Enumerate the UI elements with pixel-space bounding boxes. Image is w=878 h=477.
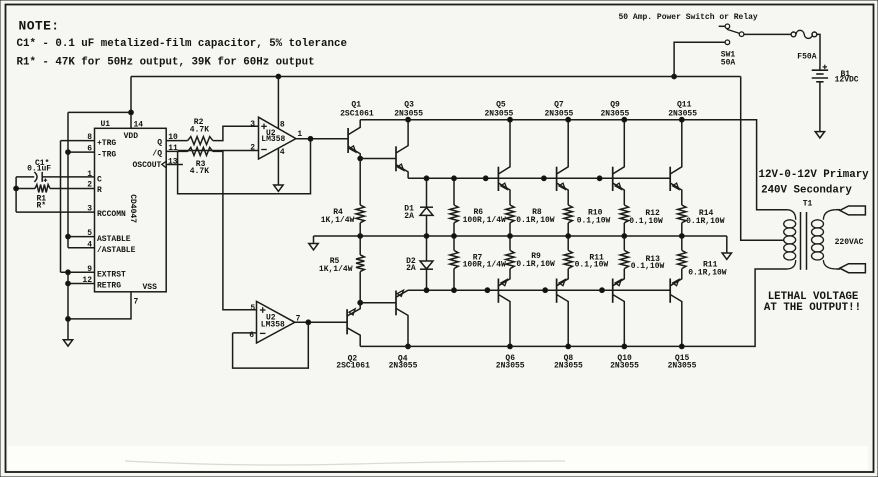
svg-text:4: 4: [87, 240, 92, 249]
node Q4 collector junction: [406, 344, 411, 349]
svg-text:4.7K: 4.7K: [190, 125, 209, 134]
label R: [97, 186, 102, 195]
label CD4047 vertical: [128, 194, 137, 223]
wire pin12 RETRG: [68, 283, 95, 285]
svg-text:8: 8: [280, 120, 285, 129]
label R7: [473, 254, 483, 263]
resistor R6: [450, 178, 458, 236]
wire R2 to pin3: [213, 126, 259, 140]
label pin12: [82, 276, 92, 285]
node pin12 junction: [66, 281, 71, 286]
svg-text:12V-0-12V Primary: 12V-0-12V Primary: [759, 169, 870, 181]
node Q1 emitter junction: [358, 156, 363, 161]
label VSS: [143, 283, 158, 292]
svg-text:11: 11: [168, 144, 178, 153]
svg-text:100R,1/4W: 100R,1/4W: [463, 216, 506, 225]
label Q11 type: [668, 109, 697, 118]
label pin13: [168, 157, 178, 166]
node Q7 collector junction: [566, 117, 571, 122]
wire VDD branch horiz: [68, 111, 131, 113]
diode D1: [420, 178, 433, 236]
resistor R14: [678, 205, 686, 236]
node D1 gnd junction: [424, 234, 429, 239]
label power switch note: [619, 13, 758, 22]
ground battery: [815, 132, 824, 138]
svg-text:0.1,10W: 0.1,10W: [629, 217, 663, 226]
node R7 rail junction: [452, 288, 457, 293]
label D1 value: [404, 212, 414, 221]
label R8 value: [516, 216, 555, 225]
op-amp U2a minus: [261, 149, 267, 151]
svg-text:10: 10: [168, 133, 178, 142]
wire Q1 emitter down to R4: [359, 159, 361, 206]
bottom smudge line: [125, 461, 565, 465]
label R5 value: [319, 265, 353, 274]
battery B1: [812, 65, 828, 82]
op-amp U2b triangle: [257, 301, 295, 343]
svg-text:2N3055: 2N3055: [610, 362, 639, 371]
node R6 base junction: [452, 176, 457, 181]
label SW1: [721, 51, 736, 60]
svg-text:Q11: Q11: [677, 100, 692, 109]
transistor Q9: [613, 120, 625, 205]
svg-text:4: 4: [280, 148, 285, 157]
label Q5 type: [485, 109, 514, 118]
label U2a pin2: [250, 143, 255, 152]
svg-text:6: 6: [87, 145, 92, 154]
transistor Q2: [347, 303, 360, 347]
transistor Q10: [613, 269, 625, 347]
svg-text:0.1R,10W: 0.1R,10W: [686, 217, 725, 226]
label R2 value: [190, 125, 209, 134]
wire top collector rail: [360, 120, 787, 210]
node U2a output junction: [308, 136, 313, 141]
label pin7: [134, 298, 139, 307]
node bottom base rail dot3: [600, 288, 605, 293]
svg-text:1K,1/4W: 1K,1/4W: [319, 265, 353, 274]
svg-text:2N3055: 2N3055: [389, 362, 418, 371]
label U2b pin7: [296, 314, 301, 323]
wire Q1emitter to Q3base: [360, 158, 396, 160]
node U2b output junction: [306, 320, 311, 325]
label pin11: [168, 144, 178, 153]
svg-text:3: 3: [250, 120, 255, 129]
wire secondary bottom lead: [836, 268, 840, 270]
wire SW1 to rail: [674, 42, 725, 76]
label pin4: [87, 240, 92, 249]
wire VDD pin14 drop: [130, 77, 132, 129]
wire pin11 /Q: [166, 150, 188, 152]
ground rail right symbol: [722, 236, 731, 259]
label R14: [699, 209, 714, 218]
resistor R12: [620, 205, 628, 236]
svg-text:RETRG: RETRG: [97, 282, 121, 291]
label R11 lower value: [688, 268, 727, 277]
label Q9: [610, 100, 620, 109]
svg-text:C1* - 0.1 uF metalized-film ca: C1* - 0.1 uF metalized-film capacitor, 5…: [17, 38, 347, 50]
label 220VAC: [835, 238, 864, 247]
label U1: [101, 120, 111, 129]
svg-text:F50A: F50A: [797, 53, 816, 62]
wire pin3 RCCOMN: [16, 211, 94, 213]
ground rail left symbol: [309, 236, 318, 250]
node Q10 collector junction: [622, 344, 627, 349]
svg-text:VDD: VDD: [124, 132, 139, 141]
svg-text:12VDC: 12VDC: [835, 75, 859, 84]
node bottom base rail dot2: [543, 288, 548, 293]
label B1: [841, 70, 851, 79]
node pin6 junction: [66, 150, 71, 155]
svg-text:T1: T1: [803, 199, 813, 208]
label /ASTABLE: [97, 246, 136, 255]
node R1 junction: [14, 186, 19, 191]
label Q4 type: [389, 362, 418, 371]
wire VDD branch rail: [67, 112, 69, 247]
node top base rail dot2: [542, 176, 547, 181]
label SW1 rating: [721, 59, 736, 68]
label U2a pin3: [250, 120, 255, 129]
svg-text:2: 2: [87, 181, 92, 190]
transistor Q5: [498, 120, 510, 205]
svg-text:U1: U1: [101, 120, 111, 129]
label /Q: [152, 150, 162, 159]
IC U1 CD4047 box: [95, 128, 167, 291]
svg-text:13: 13: [168, 157, 178, 166]
resistor R9 lower: [506, 236, 514, 269]
wire Q2emitter to Q4base: [360, 302, 396, 304]
node D1 base junction: [424, 176, 429, 181]
label D2: [406, 257, 416, 266]
label pin6: [87, 145, 92, 154]
label Q1 type: [340, 109, 374, 118]
svg-text:12: 12: [82, 276, 92, 285]
label R11 lower: [703, 260, 718, 269]
wire gnd rail pin12 down: [67, 272, 69, 339]
node Q11 collector junction: [679, 117, 684, 122]
svg-text:Q7: Q7: [554, 100, 564, 109]
node top base rail dot3: [597, 176, 602, 181]
node Q3 collector junction: [406, 117, 411, 122]
wire fuse to battery: [817, 34, 820, 66]
wire R4 to gnd: [359, 223, 361, 236]
label EXTRST: [97, 271, 126, 280]
label Q3: [404, 100, 414, 109]
resistor R2: [188, 137, 213, 145]
label R3: [196, 160, 206, 169]
label lethal warning 1: [768, 291, 859, 303]
label LM358a: [261, 135, 285, 144]
label Q6: [505, 354, 515, 363]
label Q10: [617, 354, 632, 363]
svg-text:2N3055: 2N3055: [496, 362, 525, 371]
label U2a: [266, 129, 276, 138]
label pin2: [87, 181, 92, 190]
wire battery to gnd: [819, 82, 821, 132]
label VDD: [124, 132, 139, 141]
svg-text:240V Secondary: 240V Secondary: [761, 184, 852, 196]
label Q6 type: [496, 362, 525, 371]
svg-text:5: 5: [250, 304, 255, 313]
output plug bottom: [840, 264, 866, 273]
label primary spec: [759, 169, 870, 181]
label pin9: [87, 265, 92, 274]
wire battery plus stem: [819, 67, 821, 71]
label R9 lower: [531, 252, 541, 261]
label Q8: [564, 354, 574, 363]
wire ground rail: [314, 235, 727, 237]
wire pin2 R: [16, 188, 94, 190]
wire bottom collector rail: [360, 269, 787, 346]
svg-text:EXTRST: EXTRST: [97, 271, 126, 280]
node VDD branch junction: [129, 110, 134, 115]
svg-text:2SC1061: 2SC1061: [340, 109, 374, 118]
svg-text:0.1,10W: 0.1,10W: [631, 262, 665, 271]
label R11 lower value: [575, 261, 609, 270]
svg-text:Q9: Q9: [610, 100, 620, 109]
svg-text:220VAC: 220VAC: [835, 238, 864, 247]
switch SW1: [719, 24, 744, 45]
label R1 value: [37, 202, 47, 211]
label Q7 type: [545, 109, 574, 118]
label pin1: [87, 170, 92, 179]
wire SW1 to fuse: [744, 33, 791, 35]
node Q15 collector junction: [679, 344, 684, 349]
wire center tap: [741, 77, 784, 241]
svg-text:CD4047: CD4047: [128, 194, 137, 223]
wire VSS pin7: [68, 292, 131, 319]
svg-text:C: C: [97, 176, 102, 185]
node Q5 collector junction: [508, 117, 513, 122]
resistor R11 lower: [564, 236, 572, 269]
node bottom base rail dot1: [485, 288, 490, 293]
label Q15 type: [668, 362, 697, 371]
label Q3 type: [394, 109, 423, 118]
label D2 value: [406, 264, 416, 273]
label U2a pin1: [297, 130, 302, 139]
wire R3 to pin5: [213, 151, 257, 309]
label C1: [35, 159, 49, 168]
wire U2a pin2 input: [178, 150, 259, 152]
svg-text:0.1R,10W: 0.1R,10W: [688, 268, 727, 277]
node R14 gnd junction: [679, 234, 684, 239]
label LM358b: [261, 321, 285, 330]
label pin3: [87, 204, 92, 213]
ground U2a: [274, 185, 283, 191]
label R10: [588, 208, 603, 217]
note R1 line: [17, 57, 315, 69]
transformer T1 secondary winding: [812, 210, 836, 269]
svg-text:VSS: VSS: [143, 283, 158, 292]
svg-text:Q5: Q5: [496, 100, 506, 109]
label F50A: [797, 53, 816, 62]
wire pin4 /ASTABLE: [68, 247, 95, 249]
resistor R11 lower: [678, 236, 686, 269]
op-amp U2b plus: [260, 307, 266, 313]
svg-text:Q3: Q3: [404, 100, 414, 109]
wire bottom base rail: [408, 289, 670, 291]
label Q7: [554, 100, 564, 109]
label R7 value: [463, 261, 506, 270]
label R1: [37, 194, 47, 203]
label U2b pin6: [249, 331, 254, 340]
label pin14: [134, 121, 144, 130]
pin13 OSCOUT arrow: [162, 161, 183, 168]
node VDD-opamp junction: [276, 74, 281, 79]
label RETRG: [97, 282, 121, 291]
label -TRG: [97, 150, 116, 159]
label T1: [803, 199, 813, 208]
svg-text:LM358: LM358: [261, 321, 285, 330]
node Q8 collector junction: [566, 344, 571, 349]
label R10 value: [577, 216, 611, 225]
node R10 gnd junction: [566, 234, 571, 239]
label Q8 type: [554, 362, 583, 371]
wire pin9 EXTRST: [61, 271, 95, 273]
svg-text:0.1,10W: 0.1,10W: [577, 216, 611, 225]
svg-text:5: 5: [87, 229, 92, 238]
wire C1-R1 left rail: [15, 177, 17, 212]
svg-text:4.7K: 4.7K: [190, 167, 209, 176]
wire pin5 ASTABLE: [68, 236, 95, 238]
label C: [97, 176, 102, 185]
label R14 value: [686, 217, 725, 226]
wire U2a output: [296, 138, 348, 140]
wire U2a feedback: [178, 139, 311, 194]
wire pin1 C: [16, 176, 94, 178]
label Q9 type: [601, 109, 630, 118]
transistor Q3: [396, 120, 408, 179]
capacitor C1: [34, 172, 47, 182]
label B1 value: [835, 75, 859, 84]
resistor R8: [506, 205, 514, 236]
svg-text:Q1: Q1: [351, 100, 361, 109]
wire pin8 +TRG: [61, 140, 95, 142]
node pin5 junction: [66, 234, 71, 239]
label R13 lower: [646, 255, 661, 264]
svg-text:2N3055: 2N3055: [554, 362, 583, 371]
label Q1: [351, 100, 361, 109]
node Q9 collector junction: [622, 117, 627, 122]
wire +12V rail: [131, 76, 741, 78]
node Q6 collector junction: [508, 344, 513, 349]
label Q2: [348, 354, 358, 363]
resistor R3: [188, 147, 213, 155]
label R5: [330, 257, 340, 266]
label lethal warning 2: [764, 302, 861, 314]
wire top base rail: [408, 177, 670, 179]
label R8: [532, 208, 542, 217]
svg-text:50 Amp. Power Switch or Relay: 50 Amp. Power Switch or Relay: [619, 13, 758, 22]
transistor Q6: [498, 269, 510, 347]
fuse F1: [791, 30, 817, 38]
label R6 value: [463, 216, 506, 225]
svg-text:0.1R,10W: 0.1R,10W: [516, 260, 555, 269]
node R6 gnd junction: [452, 234, 457, 239]
label R3 value: [190, 167, 209, 176]
label R2: [194, 118, 204, 127]
transistor Q7: [557, 120, 569, 205]
label ASTABLE: [97, 235, 131, 244]
svg-text:AT THE OUTPUT!!: AT THE OUTPUT!!: [764, 302, 861, 314]
label RCCOMN: [97, 210, 126, 219]
resistor R1: [35, 185, 50, 193]
node R8 gnd junction: [508, 234, 513, 239]
label R4 value: [321, 216, 355, 225]
label +TRG: [97, 139, 116, 148]
label Q15: [675, 354, 690, 363]
svg-text:2N3055: 2N3055: [668, 362, 697, 371]
output plug top: [840, 206, 866, 215]
svg-text:14: 14: [134, 121, 144, 130]
label R11 lower: [589, 254, 604, 263]
svg-text:/ASTABLE: /ASTABLE: [97, 246, 136, 255]
transistor Q1: [348, 120, 360, 159]
svg-text:1K,1/4W: 1K,1/4W: [321, 216, 355, 225]
label U2a pin4: [280, 148, 285, 157]
bottom white band: [8, 446, 868, 470]
label Q: [157, 138, 162, 147]
label secondary spec: [761, 184, 852, 196]
svg-text:0.1uF: 0.1uF: [27, 165, 51, 174]
node VSS junction: [66, 317, 71, 322]
svg-text:Q: Q: [157, 138, 162, 147]
node R12 gnd junction: [622, 234, 627, 239]
label Q4: [398, 354, 408, 363]
svg-text:100R,1/4W: 100R,1/4W: [463, 261, 506, 270]
wire U2b output: [295, 321, 347, 323]
svg-text:0.1,10W: 0.1,10W: [575, 261, 609, 270]
svg-text:R: R: [97, 186, 102, 195]
wire U2a gnd pin4: [277, 148, 279, 185]
wire secondary top lead: [836, 209, 840, 211]
label R13 lower value: [631, 262, 665, 271]
label U2a pin8: [280, 120, 285, 129]
svg-text:OSCOUT: OSCOUT: [132, 161, 161, 170]
transformer T1 core: [801, 212, 807, 270]
resistor R7: [450, 236, 458, 290]
label R12 value: [629, 217, 663, 226]
label Q11: [677, 100, 692, 109]
node VDD-switch junction: [672, 74, 677, 79]
label pin5: [87, 229, 92, 238]
wire U2a V+ pin8: [277, 77, 279, 129]
svg-text:-TRG: -TRG: [97, 150, 116, 159]
transistor Q11: [670, 120, 682, 205]
svg-text:R1* - 47K for 50Hz output, 39K: R1* - 47K for 50Hz output, 39K for 60Hz …: [17, 57, 315, 69]
label R9 lower value: [516, 260, 555, 269]
svg-text:RCCOMN: RCCOMN: [97, 210, 126, 219]
transistor Q15: [670, 269, 682, 347]
svg-text:7: 7: [134, 298, 139, 307]
transistor Q4: [396, 290, 408, 346]
svg-text:R*: R*: [37, 202, 47, 211]
svg-text:3: 3: [87, 204, 92, 213]
label pin8: [87, 133, 92, 142]
label U2b pin5: [250, 304, 255, 313]
resistor R4: [356, 205, 364, 223]
wire gnd rail pins 8-9: [60, 141, 62, 273]
svg-text:2A: 2A: [404, 212, 414, 221]
svg-text:0.1R,10W: 0.1R,10W: [516, 216, 555, 225]
resistor R5: [356, 255, 364, 272]
op-amp U2a plus: [261, 124, 267, 130]
wire pin10 Q: [166, 140, 188, 142]
node R4 gnd junction: [358, 234, 363, 239]
label Q10 type: [610, 362, 639, 371]
op-amp U2b minus: [260, 332, 266, 334]
svg-text:ASTABLE: ASTABLE: [97, 235, 131, 244]
label Q5: [496, 100, 506, 109]
